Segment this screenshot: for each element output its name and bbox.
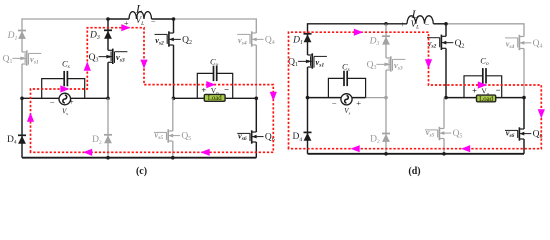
transistor Q1 (c, off) with label v_s1: [22, 51, 27, 53]
svg-text:(d): (d): [408, 166, 420, 177]
wire: (d) Q6 leg black: [523, 98, 525, 129]
node: (c) output-rail Q2-leg junction: [172, 97, 176, 101]
current path loop (c), red dashed: [31, 28, 274, 153]
wire: (d) mid rail input black segment: [308, 97, 366, 99]
wire: (c) top rail black segment D3-node to inductor: [108, 18, 129, 20]
transistor Q6 (c, on) with label v_s6: [252, 131, 257, 133]
node: (c) output-rail Q4-leg junction: [254, 97, 258, 101]
wire: (d) left leg lower black with D4: [307, 98, 309, 154]
transistor Q5 (d, off) with label v_s5: [439, 128, 444, 130]
transistor Q2 (c, on) with label v_s2: [169, 32, 174, 34]
transistor Q4 (c, off) with label v_s4: [252, 32, 257, 34]
inductor L (d): [407, 16, 433, 24]
wire: (c) bottom rail: [22, 157, 256, 159]
node: (c) bottom-rail Q5-leg junction: [171, 156, 175, 160]
node: (d) output-rail Q2-leg junction: [444, 96, 448, 100]
transistor Q2 (d, on) with label v_s2: [441, 35, 446, 37]
diode D3 (d, off): [382, 35, 390, 37]
node: (d) top junction of Q2 leg: [444, 22, 448, 26]
svg-text:−: −: [496, 85, 501, 95]
current arrow down, Q2 branch (d): [425, 59, 432, 68]
svg-text:−: −: [224, 84, 229, 94]
load box (c): [204, 94, 225, 101]
node: (c) top junction of D3 leg: [106, 17, 110, 21]
wire: (c) left leg lower black with D4: [21, 98, 23, 157]
transistor Q3 (c, on) with label v_s3: [108, 49, 113, 51]
wire: (d) top rail gray segment to Q4 leg: [446, 24, 524, 37]
wire: (d) D2 leg gray: [385, 98, 387, 154]
transistor Q3 (d, off) with label v_s3: [386, 57, 391, 59]
wire: (c) mid rail output section: [174, 97, 257, 99]
wire: (d) D3/Q3 leg gray: [385, 24, 387, 58]
wire: (d) top rail black inductor to Q2-node: [433, 23, 446, 25]
diode D3 (c, on): [104, 29, 112, 31]
capacitor Co (d): [464, 76, 483, 98]
diode D4 (c, on): [18, 134, 26, 136]
diode D1 (d, on): [304, 33, 312, 35]
svg-text:−: −: [425, 21, 430, 30]
svg-text:Load: Load: [479, 96, 494, 103]
transistor Q4 (d, off) with label v_s4: [519, 36, 524, 38]
capacitor Cs (d): [328, 78, 343, 97]
wire: (d) left leg black (D1/Q1 branch): [307, 23, 309, 55]
current arrow left, bottom rail left (d): [351, 145, 360, 152]
svg-text:+: +: [201, 85, 206, 95]
svg-text:+: +: [400, 20, 405, 29]
load box (d): [477, 95, 496, 102]
node: (d) top junction of D3 leg: [384, 22, 388, 26]
wire: (c) D2 leg gray: [107, 98, 109, 157]
transistor Q5 (c, off) with label v_s5: [168, 130, 173, 132]
current arrow up, left branch (c): [27, 113, 34, 122]
current arrow left, bottom rail left (c): [83, 149, 92, 156]
current arrow left, bottom rail right (d): [461, 145, 470, 152]
wire: (d) mid rail output section: [446, 97, 524, 99]
svg-text:(c): (c): [136, 166, 147, 177]
wire: (d) Q5 leg gray: [443, 98, 445, 129]
node: (d) bottom-rail Q5-leg junction: [442, 152, 446, 156]
current arrow down, right return (c): [270, 92, 277, 101]
svg-text:+: +: [69, 96, 74, 106]
svg-text:−: −: [50, 97, 55, 107]
wire: (c) left leg upper gray (D1/Q1 branch): [21, 18, 23, 52]
wire: (c) mid rail input section: [22, 97, 108, 99]
current arrow right, through source (c): [60, 85, 69, 92]
wire: (c) D3/Q3 leg black: [107, 19, 109, 50]
capacitor Co (c): [197, 73, 213, 98]
wire: (d) Q2 leg black: [445, 24, 447, 37]
node: (d) mid-rail D3-leg junction gray: [384, 96, 388, 100]
current arrow down, right return (d): [538, 109, 545, 118]
capacitor Cs (c): [42, 79, 64, 99]
current path loop (d), red dashed: [289, 32, 542, 149]
svg-text:−: −: [332, 98, 337, 108]
current arrow left, bottom rail right (c): [201, 149, 210, 156]
svg-text:Load: Load: [208, 95, 223, 102]
current arrow right, top rail (d): [354, 29, 363, 36]
diode D2 (c, off): [104, 134, 112, 136]
diode D4 (d, on): [304, 131, 312, 133]
transistor Q6 (d, on) with label v_s6: [519, 128, 524, 130]
AC source Vs (d): [341, 94, 352, 105]
AC source Vs (c): [59, 93, 71, 105]
diode D1 (c, off): [18, 30, 26, 32]
wire: (d) top rail black left segment: [308, 23, 408, 25]
svg-text:+: +: [472, 86, 477, 96]
diode D2 (d, off): [382, 133, 390, 135]
current arrow right, top rail (c): [121, 24, 130, 31]
svg-text:L: L: [135, 2, 143, 16]
current arrow down, Q2 branch (c): [140, 60, 147, 69]
inductor L (c): [129, 12, 152, 19]
wire: (c) top rail left gray segment: [22, 18, 108, 20]
wire: (c) top rail black segment inductor to Q2-node: [152, 18, 174, 20]
svg-text:+: +: [356, 98, 361, 108]
current arrow right, into load (d): [478, 81, 487, 88]
node: (d) output-rail Q4-leg junction: [522, 96, 526, 100]
node: (c) mid-rail D3-leg junction: [106, 97, 110, 101]
node: (c) mid-rail left junction: [20, 97, 24, 101]
current arrow up, D3 branch (c): [84, 62, 91, 71]
current arrow right, into load (c): [206, 81, 215, 88]
transistor Q1 (d, on) with label v_s1: [308, 54, 313, 56]
wire: (d) bottom rail: [308, 153, 525, 155]
wire: (c) Q2 leg black: [173, 19, 175, 33]
node: (c) bottom-rail D2-leg junction: [106, 156, 110, 160]
wire: (c) Q5 leg gray: [172, 98, 174, 131]
wire: (c) top rail right gray segment to Q4 leg: [174, 19, 257, 33]
node: (d) bottom-rail D2-leg junction: [384, 152, 388, 156]
node: (c) top junction of Q2 leg: [172, 17, 176, 21]
wire: (d) mid rail input gray segment: [366, 97, 386, 99]
node: (d) mid-rail left junction: [306, 96, 310, 100]
wire: (c) Q6 leg black: [255, 98, 257, 132]
